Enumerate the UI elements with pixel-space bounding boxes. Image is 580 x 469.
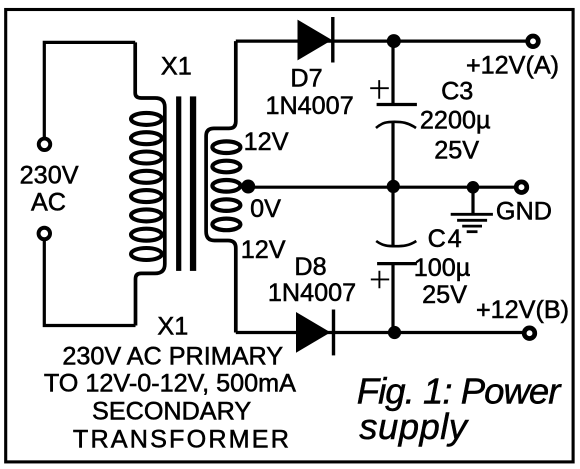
svg-text:C4: C4 [428,225,464,253]
svg-text:25V: 25V [422,281,467,309]
svg-text:230V AC PRIMARY: 230V AC PRIMARY [62,342,283,370]
svg-text:230V: 230V [20,161,79,189]
svg-text:supply: supply [359,406,470,447]
svg-text:1N4007: 1N4007 [265,92,353,120]
svg-text:12V: 12V [241,236,286,264]
svg-text:1N4007: 1N4007 [268,279,356,307]
svg-text:TRANSFORMER: TRANSFORMER [73,425,291,453]
svg-text:X1: X1 [161,53,192,81]
svg-text:D8: D8 [294,253,326,281]
svg-text:SECONDARY: SECONDARY [92,397,251,425]
svg-text:25V: 25V [434,136,479,164]
svg-text:+12V(A): +12V(A) [466,52,559,80]
svg-text:X1: X1 [157,312,188,340]
svg-text:C3: C3 [441,77,473,105]
svg-text:AC: AC [31,188,66,216]
svg-text:TO 12V-0-12V, 500mA: TO 12V-0-12V, 500mA [44,369,296,397]
svg-text:12V: 12V [244,128,289,156]
svg-text:D7: D7 [290,64,322,92]
svg-text:2200µ: 2200µ [420,106,491,134]
svg-text:GND: GND [496,198,552,226]
svg-text:+12V(B): +12V(B) [476,296,569,324]
svg-text:0V: 0V [250,195,281,223]
svg-text:100µ: 100µ [414,254,471,282]
